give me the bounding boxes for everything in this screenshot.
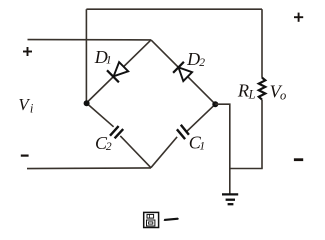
svg-text:D: D — [186, 49, 200, 69]
wire C2 stub upper — [86, 103, 113, 127]
svg-text:i: i — [30, 102, 34, 116]
wire bottom-right horizontal — [230, 168, 263, 170]
label - (input) — [21, 155, 29, 157]
label + (output) — [294, 13, 303, 22]
wire right corner to ground — [215, 104, 230, 193]
wire diamond top-right edge — [151, 40, 215, 104]
diode D1 — [107, 62, 128, 82]
svg-text:L: L — [248, 88, 256, 102]
svg-text:2: 2 — [106, 141, 112, 153]
svg-text:2: 2 — [199, 57, 205, 69]
wire - input — [27, 167, 151, 170]
wire C1 stub upper — [187, 104, 215, 131]
wire right vertical upper — [261, 9, 263, 78]
node left junction — [84, 100, 90, 106]
label - (output) — [294, 158, 303, 161]
capacitor C1 plates — [177, 125, 189, 139]
svg-text:o: o — [280, 88, 286, 102]
ground — [222, 194, 238, 204]
resistor RL — [259, 78, 266, 100]
node right junction — [212, 101, 218, 107]
wire C1 stub lower — [151, 137, 177, 168]
wire + input — [28, 39, 152, 41]
svg-text:1: 1 — [199, 141, 205, 153]
svg-text:R: R — [237, 80, 249, 100]
svg-text:V: V — [18, 95, 30, 114]
wire diamond top-left edge — [86, 40, 151, 103]
capacitor C2 plates — [110, 126, 123, 138]
svg-text:1: 1 — [106, 54, 112, 66]
caption 圖一 — [144, 212, 179, 227]
wire top horizontal — [86, 8, 262, 10]
wire C2 stub lower — [120, 136, 151, 168]
wire right vertical lower — [261, 100, 263, 169]
label + (input) — [23, 47, 32, 56]
wire left vertical — [85, 9, 87, 103]
diode D2 — [173, 62, 192, 81]
